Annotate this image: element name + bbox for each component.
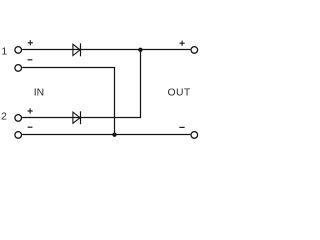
terminal circle OUT- [191, 132, 198, 139]
polarity + at output [180, 41, 185, 46]
terminal circle OUT+ [191, 47, 198, 54]
diode D1 [73, 43, 81, 56]
terminal circle 1+ [15, 47, 22, 54]
polarity + at input 2 [28, 108, 33, 113]
svg-text:2: 2 [1, 112, 7, 123]
junction node on 2- rail [112, 133, 116, 137]
wire net 2+ rail [22, 50, 140, 118]
junction node on 1+ rail [138, 48, 142, 52]
wire net 2- rail [22, 134, 190, 136]
svg-text:OUT: OUT [168, 88, 191, 99]
diode D2 [73, 111, 81, 124]
polarity - at input 1 [28, 59, 33, 61]
wire net 1- rail [22, 68, 114, 135]
polarity - at input 2 [28, 126, 33, 128]
svg-text:IN: IN [34, 88, 44, 99]
terminal circle 2+ [15, 115, 22, 122]
polarity - at output [179, 126, 184, 128]
terminal circle 1- [15, 65, 22, 72]
wire net 1+ rail [22, 49, 190, 51]
svg-text:1: 1 [2, 46, 8, 57]
polarity + at input 1 [28, 40, 33, 45]
terminal circle 2- [15, 132, 22, 139]
